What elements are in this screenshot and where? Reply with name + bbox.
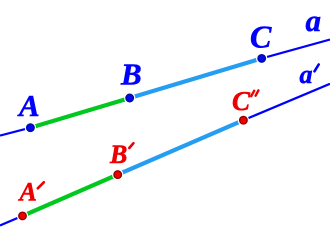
svg-text:C: C bbox=[250, 19, 272, 55]
svg-text:a: a bbox=[300, 60, 313, 89]
svg-text:B: B bbox=[120, 57, 142, 92]
svg-text:A: A bbox=[18, 178, 37, 207]
svg-text:a: a bbox=[306, 3, 322, 38]
svg-text:C: C bbox=[232, 86, 251, 116]
svg-text:B: B bbox=[109, 140, 127, 169]
svg-text:A: A bbox=[17, 88, 40, 123]
